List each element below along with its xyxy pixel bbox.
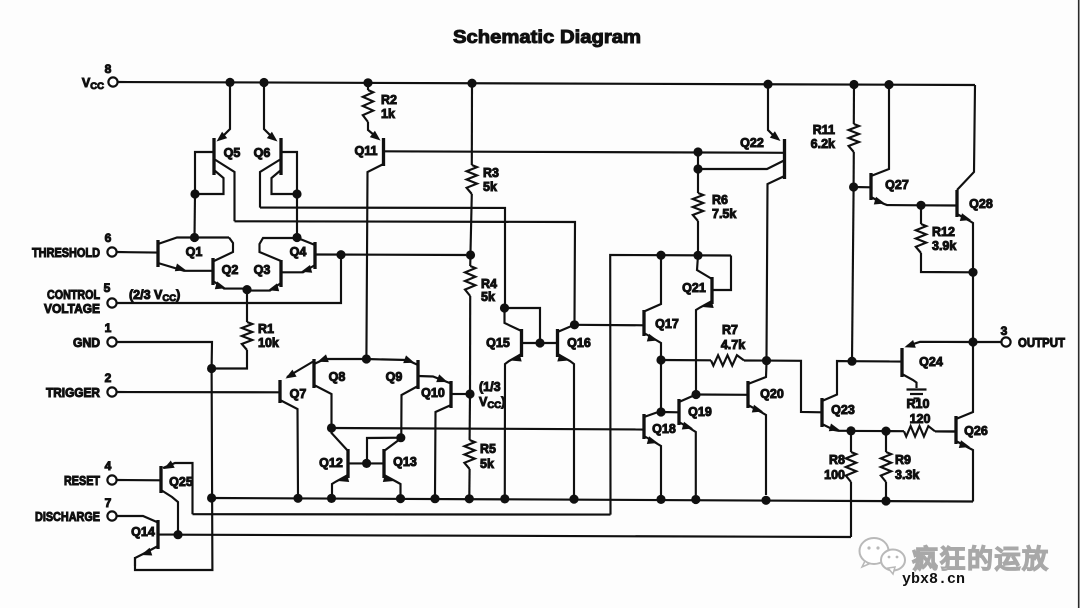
junction output node xyxy=(968,337,977,346)
junction rail/GND net xyxy=(207,493,216,502)
wire TRIGGER to Q7 base xyxy=(117,391,280,393)
svg-text:VOLTAGE: VOLTAGE xyxy=(44,302,100,316)
resistor R4 xyxy=(465,255,475,391)
svg-text:R1: R1 xyxy=(258,322,274,336)
wire Vcc rail to Q28 collector xyxy=(957,85,975,190)
svg-text:DISCHARGE: DISCHARGE xyxy=(35,510,100,524)
junction R9 top / R10 xyxy=(881,427,890,436)
wire Q11 base to Q22 (y152) xyxy=(384,151,785,153)
svg-text:Q10: Q10 xyxy=(421,386,445,400)
svg-text:ybx8.cn: ybx8.cn xyxy=(902,571,965,588)
wire Q5 inner hook to node A xyxy=(198,170,224,194)
svg-text:Q16: Q16 xyxy=(567,336,591,350)
svg-text:5: 5 xyxy=(104,281,111,295)
resistor R7 xyxy=(661,355,767,365)
junction Q8/Q9 emitters / Q11 collector xyxy=(362,354,371,363)
junction Q11 base line / R6 top xyxy=(693,147,702,156)
wire Q23 emitter node to R9/R10 xyxy=(851,430,886,432)
svg-text:CONTROL: CONTROL xyxy=(47,288,100,302)
svg-text:R3: R3 xyxy=(483,166,499,180)
transistor Q18 xyxy=(644,411,676,495)
svg-text:Q20: Q20 xyxy=(760,387,784,401)
wire THRESHOLD to Q1 base xyxy=(117,251,158,254)
svg-text:R10: R10 xyxy=(907,397,930,411)
svg-text:2: 2 xyxy=(105,371,112,385)
wire output node to OUTPUT pin xyxy=(973,341,1001,343)
junction Q15 collector/base node xyxy=(500,303,509,312)
junction R11 bottom / Q27 base xyxy=(849,182,858,191)
junction GND/R1 xyxy=(207,364,216,373)
svg-text:Q11: Q11 xyxy=(355,144,378,158)
junction Vcc/Q27 xyxy=(884,80,893,89)
junction Q22 second base line xyxy=(693,164,702,173)
wire Q28 base xyxy=(921,204,957,206)
wire y255 line (Q25 collector net) xyxy=(610,255,731,515)
junction Q1 emitter node xyxy=(190,233,199,242)
svg-text:R9: R9 xyxy=(895,453,911,467)
junction Q2/Q3 emitter node xyxy=(242,285,251,294)
svg-text:Q2: Q2 xyxy=(222,263,239,277)
junction R3/R4 node xyxy=(466,250,475,259)
junction Q9 collector / Q13 collector node xyxy=(396,433,405,442)
pin 6 THRESHOLD xyxy=(32,231,117,260)
wire Vcc top rail xyxy=(118,82,975,85)
svg-text:Q19: Q19 xyxy=(688,405,712,419)
svg-text:Q22: Q22 xyxy=(740,136,764,150)
wire GND pin to ground net xyxy=(117,342,212,369)
junction Q18 collector / Q19 base xyxy=(656,407,665,416)
junction rail/Q7 xyxy=(293,494,302,503)
junction Q4 base / control voltage xyxy=(336,250,345,259)
pin 4 RESET xyxy=(64,459,117,488)
junction y255/R6/Q21 xyxy=(693,251,702,260)
svg-text:Q18: Q18 xyxy=(652,422,676,436)
svg-text:R6: R6 xyxy=(712,193,728,207)
junction rail/Q18 xyxy=(656,495,665,504)
transistor Q23 xyxy=(822,361,855,431)
wire Q22 lower base line xyxy=(698,161,784,170)
svg-text:4: 4 xyxy=(105,459,112,473)
svg-text:Q25: Q25 xyxy=(169,475,193,489)
junction rail/Q15 xyxy=(500,494,509,503)
junction Q8 collector / y428 line xyxy=(327,423,336,432)
wire ground net vertical down to Q14 loop xyxy=(135,369,212,571)
junction Vcc/R3 xyxy=(467,79,476,88)
svg-text:OUTPUT: OUTPUT xyxy=(1018,336,1065,350)
svg-text:Q17: Q17 xyxy=(655,317,679,331)
junction Vcc/R11 xyxy=(849,80,858,89)
wire Q14 base line y536 to R8 bottom xyxy=(178,535,851,537)
transistor Q4 xyxy=(260,238,316,273)
transistor Q3 xyxy=(250,260,281,291)
transistor Q17 xyxy=(644,255,679,357)
wire Q5 collector riser (to y221 line) xyxy=(214,159,235,221)
transistor Q26 xyxy=(935,346,988,502)
pin 8 Vcc xyxy=(82,62,118,92)
resistor R3 xyxy=(467,83,477,252)
junction Q17 emitter / R7 left xyxy=(656,355,665,364)
svg-text:(1/3: (1/3 xyxy=(479,380,501,394)
svg-text:3.9k: 3.9k xyxy=(932,239,956,253)
svg-text:Q3: Q3 xyxy=(254,263,271,277)
resistor R10 xyxy=(886,426,956,436)
node A junction (Q5 base/collector) xyxy=(190,189,199,198)
svg-text:R12: R12 xyxy=(932,225,955,239)
transistor Q22 xyxy=(740,84,784,357)
junction rail/R5 xyxy=(465,494,474,503)
transistor Q19 xyxy=(661,395,712,496)
svg-text:7.5k: 7.5k xyxy=(712,207,736,221)
svg-text:R11: R11 xyxy=(813,123,835,137)
wire Q12/Q13 base bridge xyxy=(348,462,384,464)
wire comparator output y208 (Q6 collector to Q15) xyxy=(260,208,505,305)
transistor Q1 xyxy=(158,238,233,272)
svg-text:Q7: Q7 xyxy=(290,387,307,401)
wire Q16 collector node to Q17 base xyxy=(575,324,645,327)
svg-text:RESET: RESET xyxy=(64,474,100,488)
svg-text:Q26: Q26 xyxy=(964,424,988,438)
svg-text:6.2k: 6.2k xyxy=(811,137,835,151)
wire Q6 inner hook to node B xyxy=(272,170,295,194)
right edge artifact line xyxy=(1078,0,1080,608)
wire Q8 collector node to Q18 base (y428) xyxy=(332,428,645,430)
svg-text:R8: R8 xyxy=(829,453,845,467)
transistor Q12 xyxy=(319,428,349,495)
pin 5 CONTROL VOLTAGE xyxy=(44,281,117,316)
svg-text:8: 8 xyxy=(105,62,112,76)
junction Q16 collector node xyxy=(570,320,579,329)
svg-text:Q12: Q12 xyxy=(319,456,343,470)
transistor Q2 xyxy=(213,258,244,289)
pin 3 OUTPUT xyxy=(1001,324,1066,350)
svg-text:Q14: Q14 xyxy=(131,525,155,539)
svg-text:VCC): VCC) xyxy=(479,395,505,411)
wire node B down to Q4 emitter node xyxy=(296,194,298,238)
wire Q11 collector down to Q8/Q9 mirror xyxy=(366,164,383,359)
junction Vcc/Q6 xyxy=(259,78,268,87)
svg-text:7: 7 xyxy=(105,496,112,510)
svg-text:Schematic Diagram: Schematic Diagram xyxy=(453,26,641,47)
transistor Q15 xyxy=(486,308,522,495)
transistor Q13 xyxy=(383,439,417,496)
svg-text:TRIGGER: TRIGGER xyxy=(46,386,100,400)
junction Vcc/R2 xyxy=(363,78,372,87)
svg-text:Q5: Q5 xyxy=(224,146,241,160)
svg-text:Q9: Q9 xyxy=(386,370,403,384)
resistor R8 xyxy=(846,431,856,537)
svg-text:疯狂的运放: 疯狂的运放 xyxy=(912,544,1050,574)
wire node A down to Q1 emitter node xyxy=(193,194,196,238)
wire R11 node down to Q23 collector/Q24 base node xyxy=(852,187,854,361)
transistor Q27 xyxy=(854,88,921,205)
svg-text:(2/3 VCC): (2/3 VCC) xyxy=(129,288,180,304)
transistor Q8 xyxy=(314,354,366,425)
svg-text:3: 3 xyxy=(1001,324,1008,338)
svg-text:1k: 1k xyxy=(381,107,395,121)
svg-text:Q8: Q8 xyxy=(329,370,346,384)
transistor Q24 xyxy=(902,340,970,388)
wire RESET to Q25 base xyxy=(117,479,161,481)
resistor R9 xyxy=(881,431,891,499)
ground symbol (Q24 emitter) xyxy=(907,390,927,399)
junction base bridge xyxy=(362,459,371,468)
transistor Q28 xyxy=(957,190,993,338)
svg-text:100: 100 xyxy=(824,468,845,482)
wire Q17 emitter node down to Q18 collector xyxy=(660,360,662,412)
wire Q24 base xyxy=(852,360,902,362)
resistor R12 xyxy=(916,205,973,272)
node B junction (Q6 base/collector) xyxy=(292,189,301,198)
svg-text:R2: R2 xyxy=(381,93,397,107)
junction Q23 emitter / R8 / R10 xyxy=(846,426,855,435)
wire Q13 collector node to Q12/Q13 base bridge xyxy=(367,438,401,460)
wire Q25 collector line y514 to y255 riser xyxy=(193,513,611,516)
svg-text:120: 120 xyxy=(910,412,931,426)
junction base bridge / riser xyxy=(535,338,544,347)
junction Q27 emitter / R12 / Q28 base xyxy=(916,201,925,210)
watermark wechat icon xyxy=(860,538,906,574)
wire Q5 base to node A xyxy=(195,152,214,191)
svg-text:R4: R4 xyxy=(481,277,497,291)
junction rail/Q16 xyxy=(569,495,578,504)
pin 7 DISCHARGE xyxy=(35,496,117,524)
wire Q23 base from R7 node xyxy=(767,361,823,413)
svg-text:Q4: Q4 xyxy=(290,245,307,259)
svg-text:4.7k: 4.7k xyxy=(721,338,745,352)
junction Vcc/Q5 xyxy=(225,78,234,87)
resistor R5 xyxy=(464,394,474,498)
transistor Q21 xyxy=(682,255,731,391)
wire Q6 collector riser (to y208 line) xyxy=(260,159,281,208)
svg-text:Q15: Q15 xyxy=(486,336,510,350)
transistor Q9 xyxy=(366,355,451,434)
junction rail/R9 xyxy=(881,496,890,505)
resistor R11 xyxy=(849,85,859,185)
svg-text:VCC: VCC xyxy=(82,76,104,92)
junction rail/Q12 xyxy=(327,494,336,503)
junction rail/Q19 xyxy=(691,495,700,504)
wire Q15/Q16 base bridge xyxy=(522,342,558,344)
transistor Q10 xyxy=(421,381,466,495)
transistor Q14 xyxy=(117,516,175,566)
wire Q6 base to node B xyxy=(281,152,297,191)
transistor Q25 xyxy=(161,461,193,532)
wire CONTROL VOLTAGE to Q4 base node xyxy=(117,257,341,303)
transistor Q5 xyxy=(214,82,240,175)
svg-text:THRESHOLD: THRESHOLD xyxy=(32,246,100,260)
svg-text:Q27: Q27 xyxy=(885,178,909,192)
junction Q4 emitter node xyxy=(292,233,301,242)
junction rail/Q10 xyxy=(430,494,439,503)
wire Q19 collector node to Q20 base xyxy=(696,393,748,395)
junction R12 bottom / Q28 emitter xyxy=(968,268,977,277)
junction R7 right / Q20 collector / Q22 collector / Q23 base xyxy=(762,356,771,365)
wire ground rail xyxy=(212,498,973,502)
junction Q19 collector / Q20 base / Q21 emitter xyxy=(691,390,700,399)
svg-text:1: 1 xyxy=(105,321,112,335)
svg-text:Q23: Q23 xyxy=(831,403,855,417)
svg-text:GND: GND xyxy=(73,336,100,350)
svg-text:Q24: Q24 xyxy=(919,355,943,369)
junction Q14 base / Q25 emitter / R8 line xyxy=(173,530,182,539)
junction rail/Q20 xyxy=(761,496,770,505)
pin 1 GND xyxy=(73,321,117,350)
junction Vcc/Q22 xyxy=(763,80,772,89)
svg-text:R7: R7 xyxy=(722,323,738,337)
resistor R2 xyxy=(363,83,373,122)
junction (1/3 Vcc) node xyxy=(465,389,474,398)
svg-text:10k: 10k xyxy=(258,336,279,350)
svg-text:Q6: Q6 xyxy=(254,146,271,160)
svg-text:5k: 5k xyxy=(480,457,494,471)
svg-text:Q13: Q13 xyxy=(393,455,417,469)
svg-text:Q1: Q1 xyxy=(186,245,203,259)
transistor Q16 xyxy=(557,325,591,495)
wire Q4 base line to R3/R4 node xyxy=(315,253,466,256)
resistor R1 xyxy=(215,290,252,369)
junction Q23 collector / Q24 base node xyxy=(847,357,856,366)
resistor R6 xyxy=(693,152,703,252)
transistor Q7 xyxy=(280,361,314,495)
wire Q15 node to base bridge riser xyxy=(505,308,541,340)
svg-text:Q21: Q21 xyxy=(682,281,706,295)
junction y255/Q17 collector xyxy=(656,251,665,260)
svg-text:5k: 5k xyxy=(481,290,495,304)
transistor Q11 xyxy=(355,122,384,166)
svg-text:3.3k: 3.3k xyxy=(895,468,919,482)
svg-text:R5: R5 xyxy=(480,442,496,456)
transistor Q20 xyxy=(748,363,784,495)
svg-text:Q28: Q28 xyxy=(969,197,993,211)
junction rail/Q13 xyxy=(396,494,405,503)
transistor Q6 xyxy=(254,82,281,175)
svg-text:5k: 5k xyxy=(483,180,497,194)
svg-text:6: 6 xyxy=(105,231,112,245)
pin 2 TRIGGER xyxy=(46,371,117,400)
wire comparator output y221 (Q5 collector to Q16) xyxy=(235,221,576,321)
